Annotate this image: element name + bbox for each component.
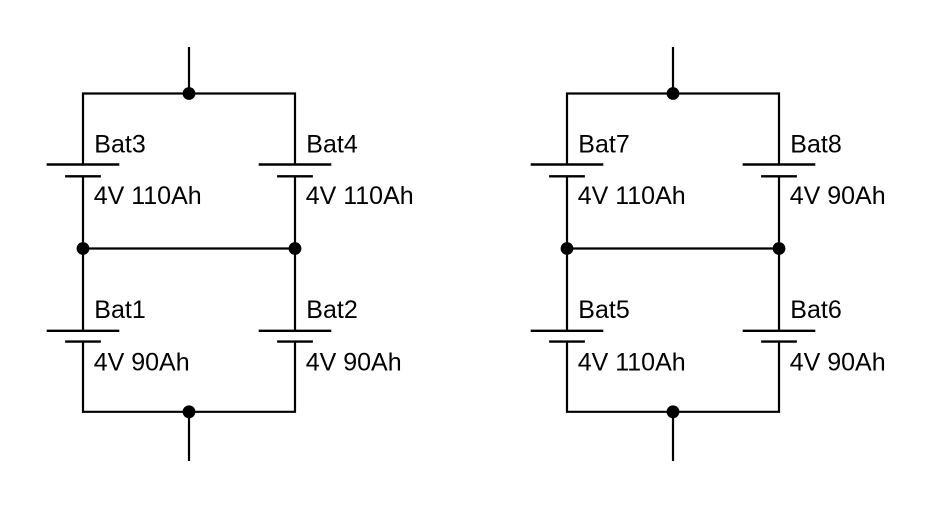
wire: positive terminal stub (188, 47, 190, 94)
wire: top bus with upper battery top leads (567, 94, 779, 165)
battery Bat2 long positive plate (259, 330, 332, 332)
battery Bat3 long positive plate (47, 163, 120, 165)
junction node: middle right junction (773, 242, 786, 255)
svg-text:Bat2: Bat2 (306, 296, 357, 324)
battery Bat2 short negative plate (277, 340, 313, 342)
battery Bat7 long positive plate (531, 163, 604, 165)
svg-text:Bat1: Bat1 (94, 296, 145, 324)
wire: bottom bus with lower battery bottom leads (83, 342, 295, 412)
wire: top bus with upper battery top leads (83, 94, 295, 165)
wire: middle series-connection bus (567, 247, 779, 249)
svg-text:4V 110Ah: 4V 110Ah (578, 182, 686, 210)
junction node: bottom terminal junction (667, 405, 680, 418)
svg-text:Bat5: Bat5 (578, 296, 629, 324)
wire: Bat5 top lead from middle bus (566, 249, 568, 331)
svg-text:4V 110Ah: 4V 110Ah (94, 182, 202, 210)
wire: Bat8 bottom lead to middle bus (778, 176, 780, 248)
battery Bat6 short negative plate (761, 340, 797, 342)
battery Bat5 long positive plate (531, 330, 604, 332)
battery Bat8 short negative plate (761, 175, 797, 177)
battery Bat4 long positive plate (259, 163, 332, 165)
junction node: middle left junction (561, 242, 574, 255)
battery Bat1 long positive plate (47, 330, 120, 332)
wire: negative terminal stub (188, 412, 190, 461)
svg-text:Bat4: Bat4 (306, 131, 358, 159)
wire: middle series-connection bus (83, 247, 295, 249)
svg-text:4V 90Ah: 4V 90Ah (306, 348, 402, 376)
svg-text:4V 110Ah: 4V 110Ah (306, 182, 414, 210)
junction node: middle right junction (289, 242, 302, 255)
svg-text:Bat3: Bat3 (94, 131, 145, 159)
wire: Bat1 top lead from middle bus (82, 249, 84, 331)
svg-text:4V 90Ah: 4V 90Ah (790, 182, 886, 210)
wire: Bat2 top lead from middle bus (294, 249, 296, 331)
battery Bat6 long positive plate (743, 330, 816, 332)
wire: Bat4 bottom lead to middle bus (294, 176, 296, 248)
svg-text:4V 110Ah: 4V 110Ah (578, 348, 686, 376)
svg-text:Bat7: Bat7 (578, 131, 629, 159)
junction node: middle left junction (77, 242, 90, 255)
wire: Bat7 bottom lead to middle bus (566, 176, 568, 248)
svg-text:4V 90Ah: 4V 90Ah (790, 348, 886, 376)
svg-text:Bat6: Bat6 (790, 296, 841, 324)
wire: Bat6 top lead from middle bus (778, 249, 780, 331)
junction node: bottom terminal junction (183, 405, 196, 418)
battery Bat1 short negative plate (65, 340, 101, 342)
svg-text:4V 90Ah: 4V 90Ah (94, 348, 190, 376)
svg-text:Bat8: Bat8 (790, 131, 841, 159)
wire: Bat3 bottom lead to middle bus (82, 176, 84, 248)
wire: bottom bus with lower battery bottom leads (567, 342, 779, 412)
junction node: top terminal junction (183, 87, 196, 100)
battery Bat8 long positive plate (743, 163, 816, 165)
wire: positive terminal stub (672, 47, 674, 94)
battery Bat5 short negative plate (549, 340, 585, 342)
battery Bat7 short negative plate (549, 175, 585, 177)
wire: negative terminal stub (672, 412, 674, 461)
battery Bat4 short negative plate (277, 175, 313, 177)
battery Bat3 short negative plate (65, 175, 101, 177)
junction node: top terminal junction (667, 87, 680, 100)
